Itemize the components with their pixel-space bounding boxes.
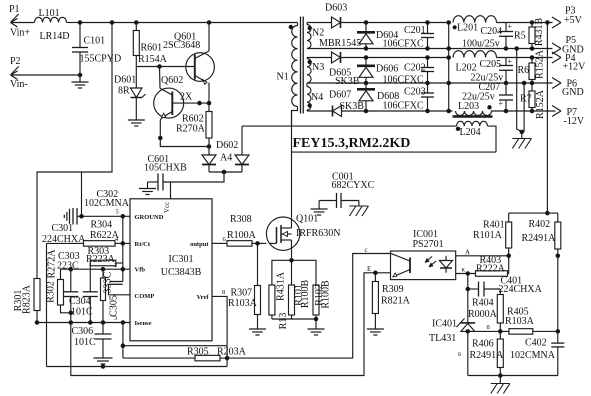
ground R309 — [367, 329, 384, 335]
svg-text:GROUND: GROUND — [135, 214, 164, 221]
wire COMP pin — [109, 284, 131, 295]
node D604 top — [364, 21, 368, 25]
ground C001 left — [311, 209, 328, 215]
node R406 gnd — [499, 374, 503, 378]
svg-text:E: E — [367, 265, 371, 273]
svg-text:SK3B: SK3B — [335, 76, 360, 87]
svg-text:C402: C402 — [525, 338, 547, 349]
wire tl431 column — [467, 274, 469, 323]
node R403 left — [466, 272, 470, 276]
svg-text:R821A: R821A — [381, 296, 411, 307]
svg-text:C202: C202 — [404, 63, 426, 74]
svg-text:+: + — [499, 99, 504, 108]
svg-text:C301: C301 — [52, 223, 74, 234]
ground C301 left — [64, 209, 69, 224]
svg-text:R100A: R100A — [227, 230, 257, 241]
svg-text:R152A: R152A — [534, 49, 545, 79]
svg-text:N1: N1 — [277, 72, 289, 83]
svg-text:106CFXC: 106CFXC — [383, 101, 424, 112]
diode D608 — [357, 83, 399, 111]
node R6 top — [530, 56, 534, 60]
wire RtCt rail — [46, 243, 48, 366]
node R601 top — [135, 21, 139, 25]
wire rail3 a — [307, 110, 333, 112]
svg-text:102CMNA: 102CMNA — [510, 350, 556, 361]
wire Q601 base — [136, 66, 195, 68]
node feedback top — [546, 21, 550, 25]
node C101 bottom — [78, 73, 82, 77]
node pin4 — [121, 242, 125, 246]
resistor R101 R100B — [289, 280, 312, 319]
svg-text:R302: R302 — [46, 281, 57, 303]
svg-text:Rt/Ct: Rt/Ct — [135, 241, 151, 248]
diode D601 zener — [114, 67, 146, 121]
svg-text:2SC3648: 2SC3648 — [163, 40, 200, 51]
transformer N2 — [307, 23, 324, 49]
wire bus — [448, 23, 450, 112]
svg-text:D602: D602 — [216, 140, 238, 151]
node bus5 — [447, 109, 451, 113]
node source — [290, 259, 294, 263]
wire reg bottom — [458, 351, 558, 376]
connector P5 GND — [552, 35, 584, 56]
node fb join — [546, 211, 550, 215]
chassis column a — [515, 47, 522, 132]
svg-text:223C: 223C — [57, 261, 79, 272]
node D608 bottom — [364, 109, 368, 113]
capacitor C304 — [69, 263, 98, 323]
svg-text:+: + — [508, 57, 513, 66]
connector P1 Vin+ — [9, 4, 30, 39]
node bus4 — [447, 81, 451, 85]
svg-text:IC301: IC301 — [169, 254, 194, 265]
wire W1 tap — [81, 172, 83, 216]
node gnd1 d604 — [364, 47, 368, 51]
svg-text:106CFXC: 106CFXC — [383, 39, 424, 50]
svg-text:C201: C201 — [404, 25, 426, 36]
node gate — [256, 242, 260, 246]
wire Q602 emitter — [160, 118, 209, 147]
svg-text:P2: P2 — [10, 56, 21, 67]
svg-text:Q101: Q101 — [296, 214, 318, 225]
svg-text:D601: D601 — [114, 75, 136, 86]
svg-text:R154A: R154A — [138, 54, 168, 65]
wire gnd1 — [307, 48, 553, 50]
node R602 bottom — [207, 145, 211, 149]
svg-text:R307: R307 — [231, 288, 253, 299]
node R301 bottom — [35, 321, 39, 325]
wire column 122 — [122, 216, 124, 281]
node R5 bottom — [530, 47, 534, 51]
svg-text:L203: L203 — [458, 101, 479, 112]
node primary phase — [289, 25, 292, 28]
ground regulator chassis — [491, 376, 510, 394]
svg-text:R13: R13 — [278, 313, 289, 330]
wire rail3 c — [491, 110, 556, 112]
wire sense top — [272, 260, 316, 285]
node bus1 — [447, 21, 451, 25]
node D606 top — [364, 56, 368, 60]
node sense gnd — [314, 317, 318, 321]
node chassis — [520, 130, 524, 134]
inductor L202 — [453, 51, 503, 84]
node L203 phase — [488, 106, 491, 109]
svg-text:R272A: R272A — [47, 249, 58, 279]
capacitor C101 — [72, 23, 121, 76]
capacitor C306 — [72, 323, 112, 359]
label opto pins — [365, 246, 471, 274]
wire isense tap — [122, 323, 124, 359]
diode D605 — [329, 52, 360, 87]
svg-text:155CPYD: 155CPYD — [80, 54, 122, 65]
connector P6 GND — [552, 78, 584, 99]
node c204 gnd — [504, 47, 508, 51]
node pin5 a — [80, 215, 84, 219]
diode D602 left — [202, 140, 238, 172]
connector P2 Vin- — [10, 56, 28, 90]
svg-text:D607: D607 — [329, 90, 351, 101]
capacitor C001 — [319, 172, 375, 210]
capacitor C203 — [383, 83, 435, 112]
wire P1 to L101 — [11, 22, 35, 24]
svg-text:R101A: R101A — [473, 230, 503, 241]
svg-text:R823A: R823A — [22, 284, 33, 314]
svg-text:R308: R308 — [230, 214, 252, 225]
svg-text:2: 2 — [114, 262, 117, 269]
svg-text:Vfb: Vfb — [135, 267, 146, 274]
capacitor C205 — [480, 57, 514, 83]
svg-text:-12V: -12V — [564, 116, 585, 127]
capacitor C207 — [462, 82, 513, 111]
transformer core — [301, 17, 304, 114]
svg-text:к: к — [462, 266, 466, 274]
resistor R304 — [47, 220, 131, 247]
svg-text:224CHXA: 224CHXA — [499, 284, 543, 295]
node isense a — [69, 321, 73, 325]
wire Q602 collector — [159, 67, 162, 89]
capacitor C601 — [144, 154, 187, 191]
resistor R401 — [473, 213, 512, 256]
wire loop bottom — [292, 151, 497, 153]
resistor 333C network — [101, 269, 120, 322]
svg-text:R2491A: R2491A — [522, 233, 557, 244]
svg-text:TL431: TL431 — [429, 333, 456, 344]
node isense c — [101, 321, 105, 325]
opto arrows — [425, 257, 436, 268]
svg-text:682CYXC: 682CYXC — [332, 180, 375, 191]
connector P7 -12V — [552, 106, 585, 128]
wire Q601 emitter — [208, 83, 210, 112]
svg-text:3: 3 — [114, 315, 117, 322]
svg-text:R152A: R152A — [535, 89, 546, 119]
node pin5 b — [121, 215, 125, 219]
svg-text:Vcc: Vcc — [164, 202, 171, 213]
wire Isense — [37, 315, 130, 323]
svg-text:PS2701: PS2701 — [413, 239, 444, 250]
node gnd2 d608 — [364, 81, 368, 85]
wire Q601 collector — [208, 23, 210, 52]
diode D607 — [329, 90, 364, 117]
svg-text:R5: R5 — [514, 31, 526, 42]
ground C001 chassis — [349, 206, 368, 216]
node pin2 b — [101, 267, 105, 271]
svg-text:R203A: R203A — [217, 347, 247, 358]
node R401 bottom — [507, 254, 511, 258]
op-amp U IC301 box — [130, 199, 212, 341]
wire top rail left — [80, 22, 298, 24]
inductor L101 — [35, 8, 70, 42]
ground D601 — [128, 120, 145, 126]
transistor Q601 — [163, 32, 214, 85]
wire Q602 base — [172, 102, 209, 104]
svg-text:+: + — [508, 22, 513, 31]
resistor R6 — [518, 49, 546, 83]
svg-text:C305: C305 — [109, 295, 120, 317]
svg-text:R103A: R103A — [505, 316, 535, 327]
svg-text:8: 8 — [222, 289, 225, 296]
node R309 top — [374, 271, 378, 275]
svg-text:SK3B: SK3B — [340, 101, 365, 112]
svg-text:L201: L201 — [457, 23, 478, 34]
wire opto collector — [227, 254, 390, 359]
op-amp U IC001 box — [391, 229, 456, 280]
node N4 phase — [308, 104, 311, 107]
wire diode bottoms — [209, 171, 242, 173]
resistor R305 — [123, 347, 247, 361]
diode D602 right A4 — [220, 126, 249, 172]
svg-text:C101: C101 — [84, 36, 106, 47]
wire R402 column — [557, 256, 559, 343]
svg-text:100u/25v: 100u/25v — [462, 39, 500, 50]
wire rail2 c — [497, 57, 553, 59]
svg-text:R431A: R431A — [276, 271, 287, 301]
svg-text:N2: N2 — [312, 28, 324, 39]
svg-text:R406: R406 — [472, 339, 494, 350]
resistor R301 — [13, 279, 40, 323]
wire rail2 b — [341, 57, 449, 59]
svg-text:106CFXC: 106CFXC — [383, 75, 424, 86]
svg-text:L101: L101 — [39, 8, 60, 19]
svg-text:IC401: IC401 — [432, 319, 457, 330]
svg-text:8: 8 — [487, 324, 490, 331]
capacitor C201 — [383, 23, 435, 50]
ground C101 — [72, 75, 89, 88]
node C201 top — [426, 21, 430, 25]
resistor R302 — [46, 249, 71, 313]
resistor R13 R431A — [269, 271, 289, 329]
wire pin2 Vfb — [61, 262, 131, 269]
wire feedback sense — [546, 23, 548, 214]
node N2 phase — [308, 26, 311, 29]
wire ref — [468, 324, 509, 331]
diode D604 — [357, 23, 398, 49]
node tl431 ref — [466, 330, 470, 334]
svg-text:Isense: Isense — [135, 320, 152, 327]
svg-text:Vin-: Vin- — [10, 79, 28, 90]
resistor R102 R100B — [313, 280, 332, 319]
node Q601 collector rail — [207, 21, 211, 25]
transistor Q602 — [154, 75, 193, 118]
svg-text:R2491A: R2491A — [470, 350, 505, 361]
svg-text:P1: P1 — [9, 4, 20, 15]
diode opto led — [440, 256, 456, 273]
wire Vcc pin — [170, 182, 172, 199]
svg-text:C204: C204 — [481, 26, 503, 37]
svg-text:105CHXB: 105CHXB — [144, 163, 187, 174]
wire sense bottom — [272, 318, 316, 320]
capacitor C402 — [510, 338, 564, 376]
resistor R406 — [470, 331, 505, 375]
svg-text:8R: 8R — [118, 86, 130, 97]
resistor R405 — [505, 307, 558, 335]
capacitor C303 — [57, 251, 80, 323]
ground R307 — [249, 329, 266, 335]
node gnd1 c201 — [426, 47, 430, 51]
inductor core bar — [453, 115, 493, 118]
node R5 top — [530, 21, 534, 25]
node pin2 a — [69, 267, 73, 271]
svg-text:COMP: COMP — [135, 293, 155, 300]
svg-text:Q602: Q602 — [161, 75, 183, 86]
node isense d — [121, 321, 125, 325]
capacitor C204 — [481, 22, 514, 49]
svg-text:R402: R402 — [529, 219, 551, 230]
shunt-ref IC401 TL431 — [429, 319, 475, 345]
node L204 phase — [456, 127, 459, 130]
wire rail2 a — [307, 57, 332, 59]
svg-text:2X: 2X — [180, 92, 193, 103]
svg-text:R431B: R431B — [534, 18, 545, 47]
wire gnd2 — [307, 82, 553, 84]
wire rail3 b — [342, 110, 453, 112]
wire P2 — [11, 74, 81, 76]
wire L101 to node — [67, 22, 81, 24]
svg-text:FEY15.3,RM2.2KD: FEY15.3,RM2.2KD — [293, 136, 411, 151]
svg-text:IRFR630N: IRFR630N — [296, 228, 340, 239]
resistor R404 — [468, 289, 503, 331]
transformer N3 — [307, 58, 324, 83]
node C401 left — [466, 287, 470, 291]
svg-text:R100B: R100B — [321, 280, 332, 309]
node base junction — [158, 65, 162, 69]
svg-text:D603: D603 — [325, 3, 347, 14]
resistor R402 — [522, 213, 561, 256]
svg-text:R000A: R000A — [468, 309, 498, 320]
resistor R308 — [212, 214, 266, 246]
svg-text:Vref: Vref — [196, 294, 209, 301]
svg-text:c: c — [365, 246, 368, 254]
svg-text:Vin+: Vin+ — [10, 28, 30, 39]
node bus2 — [447, 47, 451, 51]
wire drain — [291, 111, 293, 229]
node R302 bottom — [69, 311, 73, 315]
node R405 right — [556, 330, 560, 334]
ground chassis secondary — [512, 132, 531, 149]
svg-text:R100B: R100B — [300, 280, 311, 309]
svg-text:R309: R309 — [382, 284, 404, 295]
svg-text:+12V: +12V — [563, 62, 587, 73]
inductor L204 — [242, 121, 496, 152]
node C101 top — [78, 21, 82, 25]
svg-text:5: 5 — [116, 209, 119, 216]
transistor opto photo — [391, 253, 411, 277]
capacitor C401 — [468, 276, 543, 297]
svg-text:C306: C306 — [72, 326, 94, 337]
node pin2 c — [121, 267, 125, 271]
node R6 bottom — [530, 81, 534, 85]
wire tl431 anode — [467, 331, 469, 375]
capacitor C301 — [42, 208, 86, 245]
diode D606 — [357, 58, 398, 84]
node isense b — [89, 321, 93, 325]
svg-text:R601: R601 — [141, 43, 163, 54]
resistor R7 — [520, 83, 546, 119]
ground C601 — [139, 189, 156, 195]
node lineA left — [121, 344, 125, 348]
svg-text:MBR1545: MBR1545 — [319, 38, 361, 49]
node C203 bottom — [426, 109, 430, 113]
svg-text:UC3843B: UC3843B — [161, 267, 202, 278]
capacitor C202 — [383, 58, 435, 86]
transformer N4 — [307, 83, 323, 111]
wire pin5 ground — [77, 209, 130, 217]
wire pin8 Vref — [212, 289, 227, 367]
svg-text:R401: R401 — [483, 220, 505, 231]
svg-text:101C: 101C — [74, 337, 96, 348]
wire rail1 a — [307, 22, 332, 24]
wire rail1 b — [341, 22, 449, 24]
node R402 bottom — [556, 254, 560, 258]
wire divider top — [509, 212, 558, 214]
svg-text:L204: L204 — [460, 127, 481, 138]
inductor L203 — [456, 101, 492, 116]
svg-text:D606: D606 — [376, 64, 398, 75]
transistor Q101 mosfet — [266, 214, 340, 251]
wire line C — [47, 366, 228, 368]
diode D603 — [319, 3, 361, 50]
svg-text:GND: GND — [562, 87, 584, 98]
svg-text:R222A: R222A — [476, 264, 506, 275]
node W1 column — [110, 21, 114, 25]
svg-text:R7: R7 — [520, 94, 532, 105]
wire source — [291, 240, 293, 260]
resistor R303 — [86, 246, 123, 266]
svg-text:+5V: +5V — [564, 15, 583, 26]
resistor R5 — [514, 18, 545, 49]
resistor R309 — [372, 273, 410, 329]
node R7 bottom — [530, 109, 534, 113]
wire opto anode — [456, 255, 509, 257]
svg-text:N3: N3 — [312, 62, 324, 73]
svg-text:A4: A4 — [220, 153, 232, 164]
node base wire a — [198, 101, 202, 105]
svg-text:C203: C203 — [404, 87, 426, 98]
svg-text:R103A: R103A — [228, 298, 258, 309]
node C202 top — [426, 56, 430, 60]
transformer N1 primary — [277, 23, 298, 126]
svg-text:R270A: R270A — [176, 124, 206, 135]
capacitor C305 — [110, 282, 123, 285]
resistor R307 — [228, 243, 261, 329]
svg-text:R6: R6 — [518, 65, 530, 76]
svg-text:C304: C304 — [69, 296, 91, 307]
label FEY core — [293, 136, 411, 151]
wire line A — [123, 345, 227, 347]
resistor R403 — [456, 255, 509, 276]
svg-text:R404: R404 — [472, 298, 494, 309]
node c207 bottom — [504, 109, 508, 113]
node gnd2 c202 — [426, 81, 430, 85]
